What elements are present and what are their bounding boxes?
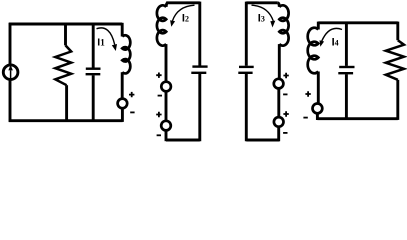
- wire top rail circuit 1: [9, 23, 122, 26]
- minus sign source 2 circuit 3: [283, 132, 287, 134]
- capacitor circuit 2 bottom plate: [191, 72, 206, 74]
- current source circle circuit 1: [3, 65, 18, 80]
- svg-text:I2: I2: [182, 13, 189, 25]
- capacitor circuit 1 top plate: [86, 67, 101, 69]
- wire top rail circuit 4: [318, 21, 398, 24]
- wire source 2 to bottom circuit 3: [277, 127, 280, 141]
- minus sign source 1 circuit 2: [158, 95, 162, 97]
- svg-text:I4: I4: [332, 36, 339, 48]
- wire bottom rail circuit 1: [9, 119, 123, 122]
- inductor circuit 2 (bulge left): [157, 5, 166, 45]
- inductor circuit 2 top hook: [166, 3, 168, 7]
- wire inductor branch top: [121, 23, 124, 37]
- wire source to bottom circuit 4: [316, 113, 319, 120]
- voltage source circle 1 circuit 2: [161, 82, 171, 92]
- wire resistor branch top circuit 4: [396, 22, 399, 41]
- wire left branch upper: [9, 23, 12, 65]
- current source arrow (up): [10, 70, 12, 78]
- voltage source circle 2 circuit 2: [161, 121, 171, 131]
- capacitor circuit 2 top plate: [192, 65, 207, 67]
- wire top rail circuit 2: [166, 1, 200, 4]
- plus sign source 1 circuit 2: [156, 73, 161, 78]
- wire resistor branch bottom: [65, 85, 68, 122]
- plus sign circuit 1 source: [129, 92, 134, 97]
- arrow arc I1 (clockwise into inductor): [97, 28, 115, 45]
- arrow arc I4 (counterclockwise into coil): [322, 28, 342, 41]
- arrow arc I2 (counterclockwise into coil): [172, 5, 194, 21]
- wire capacitor branch bottom: [92, 75, 95, 122]
- inductor circuit 1 (bulge right): [122, 35, 130, 73]
- wire source to bottom circuit 1: [121, 108, 124, 122]
- minus sign source circuit 4: [303, 117, 307, 119]
- voltage source circle circuit 1: [118, 99, 128, 109]
- plus sign source 2 circuit 3: [283, 111, 288, 116]
- wire inductor to source circuit 1: [121, 72, 124, 99]
- capacitor circuit 3 bottom plate: [238, 72, 252, 74]
- voltage source circle 2 circuit 3: [274, 117, 284, 127]
- wire coil to source 1 circuit 2: [165, 44, 168, 82]
- minus sign circuit 1 source: [130, 111, 134, 113]
- wire capacitor branch bottom circuit 4: [345, 74, 348, 120]
- inductor circuit 3 (bulge right): [279, 5, 288, 45]
- capacitor circuit 4 bottom plate: [338, 72, 353, 74]
- svg-text:I1: I1: [97, 37, 105, 49]
- svg-text:I3: I3: [258, 13, 265, 25]
- voltage source circle 1 circuit 3: [274, 79, 284, 89]
- wire resistor branch bottom circuit 4: [396, 80, 399, 120]
- voltage source circle circuit 4: [313, 104, 323, 114]
- capacitor circuit 1 bottom plate: [86, 73, 101, 75]
- wire top rail circuit 3: [246, 1, 277, 4]
- wire capacitor branch top: [92, 23, 95, 68]
- wire capacitor branch bottom circuit 3: [245, 74, 248, 141]
- capacitor circuit 3 top plate: [239, 66, 254, 68]
- wire bottom rail circuit 4: [317, 117, 397, 120]
- plus sign source circuit 4: [305, 91, 310, 96]
- wire bottom rail circuit 3: [246, 139, 279, 142]
- capacitor circuit 4 top plate: [339, 66, 354, 68]
- wire between sources circuit 3: [277, 89, 280, 118]
- wire left branch lower: [9, 80, 12, 122]
- inductor circuit 3 top hook: [278, 3, 280, 7]
- wire coil to source circuit 4: [317, 72, 320, 104]
- wire between sources circuit 2: [165, 91, 168, 120]
- wire capacitor branch top circuit 4: [345, 22, 348, 66]
- wire bottom rail circuit 2: [166, 139, 200, 142]
- wire source 2 to bottom circuit 2: [165, 131, 168, 142]
- wire left branch top circuit 4: [317, 22, 320, 30]
- minus sign source 1 circuit 3: [283, 93, 287, 95]
- wire capacitor branch top circuit 3: [245, 2, 248, 66]
- wire coil to source 1 circuit 3: [278, 44, 281, 79]
- resistor R circuit 1: [55, 45, 71, 85]
- plus sign source 1 circuit 3: [283, 73, 288, 78]
- wire capacitor branch top circuit 2: [198, 2, 201, 66]
- wire capacitor branch bottom circuit 2: [198, 74, 201, 141]
- inductor circuit 4 (bulge left): [308, 28, 319, 74]
- resistor R circuit 4: [386, 40, 404, 80]
- minus sign source 2 circuit 2: [157, 134, 161, 136]
- arrow arc I3 (clockwise into coil): [252, 5, 274, 21]
- plus sign source 2 circuit 2: [156, 112, 161, 117]
- wire resistor branch top: [64, 23, 67, 46]
